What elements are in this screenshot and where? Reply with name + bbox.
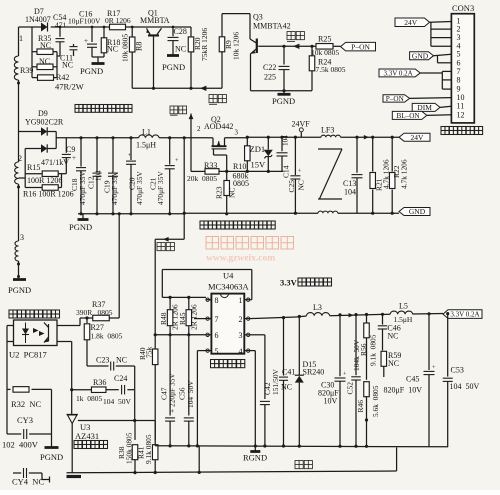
svg-text:+: +: [343, 371, 347, 378]
svg-text:PGND: PGND: [272, 96, 295, 106]
svg-text:C9: C9: [66, 145, 75, 154]
svg-text:10V: 10V: [324, 397, 338, 406]
svg-text:C53: C53: [451, 366, 464, 375]
svg-text:L3: L3: [313, 303, 322, 312]
svg-text:102 400V: 102 400V: [2, 440, 39, 450]
resistor R18 NC: [101, 27, 120, 57]
wire gate drive from switch label: [189, 114, 206, 172]
resistor R35 NC: [32, 34, 57, 54]
resistor R8 10k 0805: [121, 27, 144, 88]
capacitor CY4 NC: [12, 468, 50, 487]
wire R32/CY3 right vertical: [51, 389, 53, 446]
label secondary rectification filter: [75, 105, 132, 113]
svg-text:MC34063A: MC34063A: [208, 282, 249, 292]
svg-text:Q3: Q3: [253, 12, 263, 21]
label kaiguan switch (below Q1 rail): [209, 95, 226, 105]
ground PGND under C16/R18: [80, 57, 105, 76]
svg-text:390R: 390R: [76, 308, 92, 317]
svg-text:2: 2: [18, 154, 22, 163]
resistor R22 4.7k 1206: [389, 137, 408, 215]
svg-text:PGND: PGND: [69, 222, 92, 232]
flag GND (to CON3 pin5): [410, 51, 434, 60]
wire Q3 base row to P-ON: [258, 44, 340, 49]
wire U2 left pins: [7, 326, 14, 435]
svg-text:R23: R23: [215, 186, 224, 199]
resistor NC (middle): [32, 57, 57, 70]
wire top rail: [19, 26, 192, 29]
svg-text:4.7k 1206: 4.7k 1206: [400, 159, 409, 189]
resistor R46 5.6k 0805: [356, 382, 380, 447]
svg-text:+: +: [84, 37, 88, 45]
resistor R48 2R 1206: [159, 297, 180, 334]
svg-text:NC: NC: [107, 45, 118, 54]
wire supply drop from GND rail: [155, 138, 186, 242]
wire 24V rail Q2 to LF3: [246, 136, 321, 139]
svg-text:MMBTA: MMBTA: [140, 16, 170, 25]
flag GND output: [399, 207, 430, 216]
svg-text:R36: R36: [93, 378, 106, 387]
diode D7: [25, 7, 51, 32]
wire pin5 to ground: [197, 351, 206, 446]
wire 24V rail LF3 to 24V flag: [341, 135, 400, 139]
svg-text:47R/2W: 47R/2W: [55, 82, 84, 92]
svg-text:PGND: PGND: [40, 452, 63, 462]
inductor L1 1.5uH: [136, 128, 159, 150]
svg-text:R33: R33: [204, 161, 217, 170]
capacitor C23 NC: [87, 356, 135, 371]
capacitor C22 225: [263, 46, 290, 90]
capacitor C14 104: [277, 135, 291, 178]
svg-text:104 50V: 104 50V: [186, 380, 195, 408]
capacitor C19 470uF 35V: [103, 136, 120, 214]
svg-text:8: 8: [215, 296, 219, 305]
svg-text:GND: GND: [412, 51, 429, 60]
label kaiguan switch (Q3): [287, 32, 304, 42]
wire U3 ground rail / feedback line: [67, 471, 397, 474]
capacitor C56 104 50V: [178, 335, 195, 446]
wire 3.3V bus to pins 7-9: [420, 71, 451, 89]
svg-text:AOD442: AOD442: [204, 122, 233, 131]
node vertical from D7 anode to snubber resistors: [31, 27, 33, 78]
svg-text:R48: R48: [159, 312, 168, 325]
svg-text:P–ON: P–ON: [351, 42, 370, 51]
wire feedback riser right: [396, 448, 398, 472]
svg-text:LF3: LF3: [321, 125, 334, 134]
wire pin6 row: [154, 333, 206, 336]
svg-text:20k 0805: 20k 0805: [187, 174, 217, 183]
svg-text:NC: NC: [39, 57, 50, 66]
label feedback: [295, 461, 312, 469]
inductor L3: [307, 303, 330, 316]
svg-text:3.3V: 3.3V: [280, 278, 298, 288]
svg-text:ZD1: ZD1: [250, 144, 266, 154]
resistor R10 680k 0805: [233, 137, 251, 188]
resistor R17 0R 1206: [105, 9, 131, 30]
svg-text:1k 0805: 1k 0805: [76, 394, 103, 403]
svg-text:6: 6: [215, 331, 219, 340]
svg-text:CON3: CON3: [452, 3, 474, 13]
diode D9 YG902C2R (dual): [19, 109, 64, 188]
svg-text:4: 4: [239, 347, 243, 356]
svg-text:R56: R56: [359, 343, 368, 356]
wire 24V rail after L1: [159, 136, 207, 139]
resistor R38 150k 0805: [117, 421, 138, 473]
wire pin8 top row (R48/R45 top): [162, 296, 206, 299]
svg-text:2R 1206: 2R 1206: [189, 304, 198, 330]
resistor R45 2R 1206: [178, 297, 198, 334]
capacitor C52 104k 50V: [346, 315, 361, 447]
U4 pin stubs and terminals: [206, 298, 250, 352]
wire RGND bottom rail: [155, 444, 448, 448]
svg-text:820μF 10V: 820μF 10V: [384, 386, 423, 395]
svg-text:1N4007: 1N4007: [25, 15, 51, 24]
svg-text:L5: L5: [399, 302, 408, 311]
resistor R21 4.7k 1206: [370, 137, 391, 215]
wire BL-ON to pin12: [427, 114, 452, 117]
svg-text:5.6k 0805: 5.6k 0805: [371, 385, 380, 417]
svg-text:CY3: CY3: [17, 415, 33, 425]
svg-text:BL–ON: BL–ON: [396, 112, 420, 120]
wire 3.3V rail L3 to L5: [298, 313, 391, 318]
wire cap-bank rail down to R37: [118, 212, 121, 318]
resistor R59 NC: [381, 351, 401, 377]
svg-text:5: 5: [215, 347, 219, 356]
shunt regulator U3 AZ431: [67, 415, 156, 473]
svg-text:+: +: [298, 168, 302, 175]
svg-text:PGND: PGND: [162, 62, 185, 72]
svg-text:100R 1206: 100R 1206: [27, 176, 62, 185]
svg-text:3: 3: [235, 129, 239, 137]
svg-text:104 50V: 104 50V: [450, 382, 480, 391]
svg-text:0805: 0805: [98, 308, 113, 317]
svg-text:R39: R39: [20, 66, 33, 75]
svg-text:0R 1206: 0R 1206: [105, 16, 131, 25]
capacitor C46 NC: [378, 314, 401, 350]
svg-text:NC: NC: [387, 332, 398, 341]
capacitor C47 220uF 35V: [160, 335, 177, 446]
flag P-ON (from R25): [341, 42, 376, 51]
svg-text:C28: C28: [174, 27, 187, 36]
svg-text:U4: U4: [223, 271, 234, 281]
ground PGND under winding: [8, 280, 31, 296]
ground PGND under cap bank: [69, 212, 185, 232]
node 24VF: [292, 119, 311, 137]
svg-text:151/50V: 151/50V: [271, 368, 280, 395]
svg-text:104: 104: [282, 135, 290, 146]
svg-text:R16 100R 1206: R16 100R 1206: [23, 190, 74, 199]
svg-text:NC: NC: [228, 188, 237, 198]
flag 24V output: [399, 133, 430, 142]
svg-text:8: 8: [457, 75, 461, 84]
transformer winding pins 1-2-3 with R39: [14, 27, 33, 278]
capacitor C30 820uF 10V: [318, 315, 347, 446]
svg-text:10k 0805: 10k 0805: [121, 34, 130, 62]
resistor R41 9.1k 0805: [137, 421, 158, 473]
U4 pin numbers: [215, 296, 243, 356]
resistor R42 47R/2W: [32, 73, 84, 92]
flag BL-ON (to CON3 pin12): [392, 111, 427, 120]
capacitor C24 104 50V: [103, 366, 135, 406]
wire GND bottom rail: [185, 212, 399, 215]
svg-text:470μF 35V: 470μF 35V: [135, 171, 144, 205]
wire pin1 loop to top-left: [162, 270, 252, 300]
label thick-film circuit: [211, 360, 245, 368]
svg-text:104 50V: 104 50V: [103, 397, 132, 406]
snubber resistor R16 100R 1206: [23, 185, 74, 199]
watermark: [206, 237, 294, 264]
svg-text:3.3V 0.2A: 3.3V 0.2A: [450, 311, 479, 319]
zener diode ZD1 15V: [250, 137, 273, 173]
svg-text:L1: L1: [142, 128, 151, 137]
svg-text:R46: R46: [356, 400, 365, 413]
svg-text:470μF 35V: 470μF 35V: [156, 171, 165, 205]
wire switch-drive bottom rail of Q1 block: [132, 86, 222, 91]
svg-text:15V: 15V: [251, 160, 267, 170]
label output connector: [441, 127, 483, 135]
svg-text:471/1kV: 471/1kV: [41, 158, 69, 167]
svg-text:12: 12: [457, 110, 465, 119]
capacitor C18 470uF 35V: [70, 136, 87, 214]
svg-text:7: 7: [215, 315, 219, 324]
capacitor C21 470uF 35V: [149, 138, 180, 214]
flag 3.3V 0.2A (to CON3 pins 7-9): [379, 69, 420, 78]
svg-text:C24: C24: [114, 374, 127, 383]
ground RGND: [243, 446, 267, 463]
svg-text:C41: C41: [282, 368, 295, 377]
svg-text:NC: NC: [388, 359, 399, 368]
flag P-ON (to CON3 pin10): [383, 95, 410, 103]
svg-text:NC: NC: [175, 45, 186, 54]
capacitor C16 10uF100V: [68, 10, 101, 58]
svg-text:+: +: [432, 364, 436, 371]
svg-text:DIM: DIM: [417, 103, 432, 112]
flag 24V (to CON3 pin1): [395, 18, 430, 27]
svg-text:24V: 24V: [411, 133, 425, 142]
connector CON3 body: [451, 3, 474, 123]
diode D15 SR240: [295, 317, 324, 447]
capacitor CY3 102 400V: [2, 415, 52, 450]
capacitor C53 104 50V: [443, 312, 480, 447]
wire DIM to pin11: [440, 106, 451, 107]
svg-text:AZ431: AZ431: [75, 431, 99, 441]
svg-text:C22: C22: [263, 63, 276, 72]
transistor Q3 MMBTA42: [250, 12, 291, 90]
svg-text:NC: NC: [62, 61, 73, 70]
wire snubber row under Q2: [247, 170, 283, 172]
svg-text:1: 1: [19, 34, 23, 43]
svg-text:24VF: 24VF: [292, 119, 311, 128]
svg-text:CY4 NC: CY4 NC: [12, 477, 44, 487]
wire P-ON to pin10: [410, 97, 452, 100]
svg-text:NC: NC: [281, 383, 292, 392]
wire pin2 3.3V rail: [250, 316, 307, 319]
svg-text:+: +: [175, 157, 179, 164]
svg-text:R8: R8: [135, 42, 144, 51]
svg-text:104: 104: [344, 188, 356, 197]
svg-text:R45: R45: [178, 312, 187, 325]
svg-text:R15: R15: [27, 163, 40, 172]
svg-text:2: 2: [239, 315, 243, 324]
label error amplifier: [74, 441, 108, 449]
svg-text:NC: NC: [116, 356, 127, 365]
wire U2 lower right pin to AZ431 column: [57, 342, 72, 415]
label regulator optocoupler: [9, 310, 60, 318]
resistor R33 20k 0805: [187, 161, 247, 183]
wire pin3 to C42: [250, 335, 265, 399]
svg-text:3: 3: [239, 331, 243, 340]
IC U4 MC34063A body: [208, 271, 249, 354]
svg-text:GND: GND: [409, 207, 426, 216]
wire C24 down to AZ431 ref: [133, 390, 136, 422]
resistor R27 1.8k 0805: [84, 318, 122, 366]
resistor R24 7.5k 0805: [309, 46, 346, 90]
resistor R37 390R 0805: [57, 300, 119, 326]
resistor R36 1k 0805: [70, 378, 106, 403]
ground PGND (CY3): [40, 448, 63, 463]
wire pin4 to RGND: [250, 351, 256, 446]
svg-text:470μF 35V: 470μF 35V: [110, 171, 119, 205]
capacitor C45 820uF 10V: [384, 314, 437, 447]
svg-text:C23: C23: [96, 356, 109, 365]
svg-text:3: 3: [20, 233, 24, 242]
wire R9 top to Q3 collector: [222, 14, 250, 39]
svg-text:YG902C2R: YG902C2R: [25, 118, 64, 127]
capacitor C13 104: [343, 137, 363, 213]
svg-text:0805: 0805: [233, 179, 249, 188]
svg-text:9.1k 0805: 9.1k 0805: [144, 434, 153, 464]
svg-text:C45: C45: [406, 375, 419, 384]
capacitor C11 NC: [60, 44, 78, 70]
pin numbers 1-12: [457, 17, 465, 120]
label 24V output control: [200, 221, 275, 229]
capacitor C20 470uF 35V: [126, 136, 144, 214]
inductor L5 1.5uH: [390, 302, 413, 325]
svg-text:1.5μH: 1.5μH: [394, 315, 413, 324]
inductor LF3 (common-mode choke): [318, 125, 342, 213]
capacitor C54 471: [53, 13, 67, 56]
svg-text:C52: C52: [346, 382, 355, 395]
capacitor C12 104: [87, 136, 103, 214]
wire 3.3V rail to output flag: [413, 312, 443, 315]
svg-text:75kR 1206: 75kR 1206: [200, 28, 209, 61]
resistor R32 NC: [7, 387, 52, 409]
wire 24V main rail (left): [56, 137, 139, 139]
wire right side of snubber network: [56, 52, 58, 78]
capacitor C9: [62, 138, 76, 188]
svg-text:+: +: [128, 152, 132, 159]
svg-text:10k 1206: 10k 1206: [232, 32, 241, 60]
resistor R20 75kR 1206: [188, 27, 209, 88]
svg-text:SR240: SR240: [303, 368, 325, 377]
svg-text:PGND: PGND: [8, 285, 31, 295]
svg-text:2: 2: [197, 125, 201, 133]
svg-text:NC: NC: [297, 180, 306, 190]
flag 3.3V 0.2A output: [443, 310, 482, 319]
svg-text:RGND: RGND: [243, 453, 267, 463]
wire R56/R46 junction to feedback: [366, 419, 368, 422]
label kaiguan switch (left): [170, 106, 187, 115]
svg-text:1.8k 0805: 1.8k 0805: [91, 332, 123, 341]
svg-text:U2 PC817: U2 PC817: [9, 350, 47, 360]
svg-text:NC: NC: [40, 41, 51, 50]
svg-text:C25: C25: [287, 180, 296, 193]
resistor R9 10k 1206: [219, 14, 240, 89]
svg-text:471: 471: [55, 21, 67, 30]
svg-text:R32 NC: R32 NC: [11, 399, 42, 409]
flag DIM (to CON3 pin11): [412, 103, 440, 112]
mosfet Q2 AOD442: [197, 115, 248, 171]
svg-text:24V: 24V: [404, 18, 418, 27]
svg-text:3.3V 0.2A: 3.3V 0.2A: [383, 70, 412, 78]
wire Q3 emitter ground rail: [251, 89, 313, 92]
wire feedback-supply vertical to U4: [154, 239, 156, 334]
svg-text:1.5μH: 1.5μH: [136, 141, 156, 150]
resistor R40 75k: [138, 335, 158, 446]
svg-text:+ 220μF 35V: + 220μF 35V: [167, 373, 176, 413]
svg-text:7.5k 0805: 7.5k 0805: [316, 65, 346, 74]
svg-text:R25: R25: [318, 35, 331, 44]
wire feedback riser to RGND rail: [198, 446, 200, 473]
optocoupler U2 PC817: [9, 320, 57, 360]
snubber resistor R15 471/1kV 100R 1206: [25, 158, 69, 185]
svg-text:MMBTA42: MMBTA42: [253, 21, 291, 30]
capacitor C25 NC (electrolytic): [287, 137, 306, 213]
ground PGND under C22: [272, 91, 295, 106]
svg-text:75k: 75k: [145, 347, 154, 359]
ground bar U3: [67, 475, 82, 478]
wire pin7 row: [194, 318, 206, 320]
capacitor C28 NC with PGND: [162, 27, 187, 72]
label 3.3V forming circuit: [280, 278, 332, 288]
resistor R25 10k 0805: [311, 35, 339, 58]
svg-text:225: 225: [264, 73, 276, 82]
svg-text:10μF100V: 10μF100V: [68, 17, 101, 26]
svg-text:P–ON: P–ON: [386, 95, 405, 103]
svg-text:9.1k 0805: 9.1k 0805: [368, 334, 377, 366]
capacitor C42 151/50V: [260, 368, 280, 446]
svg-text:104: 104: [95, 170, 103, 181]
svg-text:www.gzweix.com: www.gzweix.com: [206, 254, 275, 264]
svg-text:+: +: [72, 154, 76, 162]
resistor R56 9.1k 0805 chain: [359, 315, 377, 380]
svg-text:150k 0805: 150k 0805: [125, 432, 134, 464]
svg-text:1: 1: [239, 296, 243, 305]
svg-text:R10: R10: [233, 162, 246, 171]
svg-text:PGND: PGND: [80, 66, 103, 76]
resistor R23 NC: [215, 171, 237, 215]
label supply: [157, 243, 174, 251]
wire GND bus to pins 5-6: [434, 54, 452, 63]
wire 24V bus to pins 1-4: [430, 22, 452, 47]
transistor Q1 MMBTA: [140, 9, 170, 89]
capacitor C41 NC: [279, 318, 295, 446]
